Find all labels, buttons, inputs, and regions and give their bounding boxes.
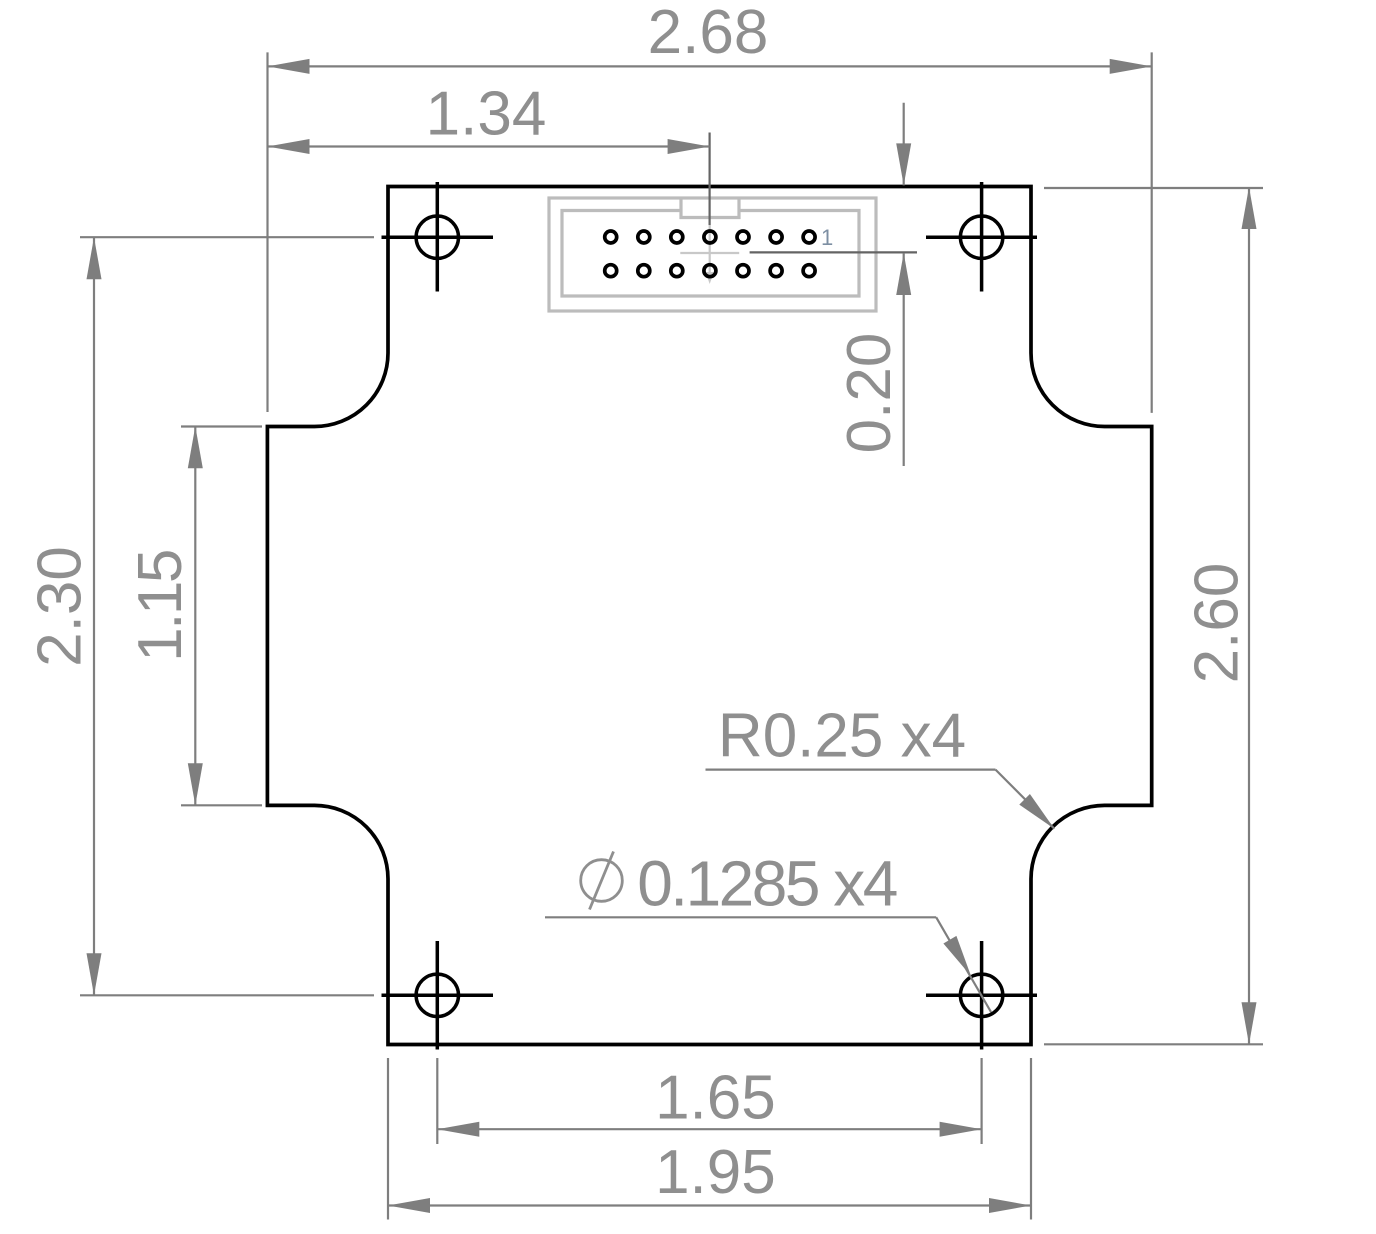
- svg-text:2.60: 2.60: [1182, 563, 1251, 684]
- svg-text:2.68: 2.68: [648, 0, 769, 67]
- svg-text:1.65: 1.65: [655, 1064, 776, 1133]
- svg-text:R0.25 x4: R0.25 x4: [718, 702, 966, 771]
- svg-text:2.30: 2.30: [26, 546, 95, 667]
- svg-text:0.1285 x4: 0.1285 x4: [637, 848, 897, 920]
- svg-text:1.15: 1.15: [126, 551, 195, 662]
- svg-text:1.95: 1.95: [655, 1138, 776, 1207]
- svg-text:1: 1: [821, 225, 833, 250]
- svg-text:0.20: 0.20: [835, 333, 904, 454]
- svg-text:1.34: 1.34: [426, 80, 547, 149]
